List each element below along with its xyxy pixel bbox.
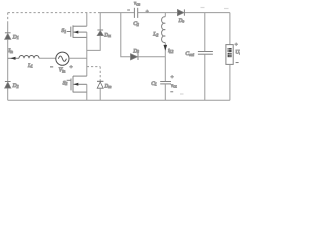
S1 drain stub	[73, 25, 87, 27]
svg-text:Cout: Cout	[185, 51, 195, 57]
wire D3 to L2/C1 node	[138, 56, 165, 58]
wire Da anode down and left to S1 source node	[87, 36, 100, 51]
inductor L1	[19, 56, 39, 59]
svg-text:L1: L1	[27, 63, 33, 69]
wire bottom rail	[8, 99, 230, 101]
svg-text:+: +	[70, 65, 73, 71]
wire dashed Db vertical	[99, 67, 101, 82]
wire C1 to bottom rail	[164, 84, 166, 100]
faint scan speck near top right	[224, 8, 229, 10]
label minus left of Vin	[50, 66, 53, 68]
svg-text:vC2: vC2	[134, 2, 140, 7]
wire dashed S2 drain to Db branch	[87, 66, 100, 68]
svg-text:Uo: Uo	[235, 50, 240, 56]
svg-text:Iin: Iin	[7, 48, 13, 54]
inductor L2	[164, 13, 166, 17]
capacitor C1 plates	[160, 82, 171, 84]
S1 body arrow	[74, 31, 79, 34]
source Vin circle	[56, 52, 69, 65]
transistor S2	[67, 76, 87, 92]
load box	[226, 45, 233, 65]
svg-text:iL2: iL2	[168, 48, 173, 54]
label minus of C2	[127, 9, 130, 11]
S1 source stub	[73, 36, 87, 38]
S1 body stub	[73, 31, 87, 33]
diode DS1	[97, 30, 103, 36]
svg-text:S1: S1	[61, 28, 66, 34]
faint scan speck above bottom rail	[180, 93, 184, 95]
svg-text:Vin: Vin	[59, 68, 66, 74]
wire S1 drain to top rail	[86, 13, 88, 27]
wire Db anode to bottom rail	[99, 88, 101, 100]
transistor S1	[67, 25, 87, 37]
svg-text:+: +	[146, 9, 149, 15]
S2 drain stub	[73, 75, 87, 77]
arrow iL2	[164, 45, 168, 51]
node input junction / arrow Iin	[8, 57, 19, 59]
svg-text:C1: C1	[151, 81, 157, 87]
svg-text:DS2: DS2	[104, 84, 112, 89]
wire load branch from rail	[229, 13, 231, 45]
label minus of Uo	[236, 62, 239, 64]
label minus of C1	[170, 91, 173, 93]
capacitor Co plates	[198, 52, 213, 55]
svg-text:D1: D1	[12, 34, 19, 40]
svg-text:+: +	[171, 75, 174, 81]
S2 body arrow	[74, 83, 79, 86]
wire node to C1	[164, 57, 166, 82]
S2 source stub	[73, 91, 87, 93]
diode D1	[5, 33, 11, 40]
sine inside source	[58, 56, 66, 61]
wire load to bottom rail	[229, 64, 231, 100]
svg-text:Do: Do	[178, 18, 185, 24]
wire Co to bottom rail	[204, 54, 206, 100]
wire top rail solid section	[99, 12, 230, 14]
wire Co branch	[204, 13, 206, 52]
svg-text:L2: L2	[152, 32, 158, 38]
S1 channel bar	[72, 25, 74, 37]
svg-text:vC1: vC1	[171, 84, 177, 89]
svg-text:S2: S2	[63, 80, 68, 86]
wire left vertical	[7, 22, 9, 101]
wire top rail dashed left section	[8, 12, 99, 14]
S2 gate lead	[67, 79, 71, 81]
wire L1 to source	[39, 57, 56, 59]
capacitor C2 top rail plates	[134, 8, 137, 18]
wire left vertical dashed top stub	[7, 13, 9, 22]
load glyph top (Chinese fu)	[228, 48, 232, 52]
svg-text:C2: C2	[133, 21, 139, 27]
wire D3 branch vertical from rail	[121, 13, 131, 57]
diode D3	[131, 54, 138, 60]
arrow Iin head	[10, 57, 15, 60]
wire source to node N	[69, 57, 87, 59]
wire S1 source down through node N to S2 drain	[86, 32, 88, 76]
load glyph bottom (Chinese zai)	[228, 53, 232, 57]
wire L2 bottom	[164, 43, 166, 57]
S2 body stub	[73, 83, 87, 85]
diode DS2	[97, 81, 103, 88]
faint scan speck near Do	[201, 7, 205, 9]
S2 channel bar	[72, 76, 74, 92]
svg-text:D2: D2	[12, 83, 19, 89]
svg-text:DS1: DS1	[103, 33, 111, 38]
wire Da branch from top rail	[99, 13, 101, 30]
svg-text:+: +	[235, 42, 238, 48]
diode D2	[5, 82, 11, 89]
S2 gate bar	[70, 79, 72, 91]
S1 gate lead	[67, 31, 71, 33]
wire S2 source to bottom rail	[86, 84, 88, 100]
S1 gate bar	[70, 27, 72, 37]
diode Do	[178, 9, 185, 15]
svg-text:D3: D3	[132, 48, 139, 54]
